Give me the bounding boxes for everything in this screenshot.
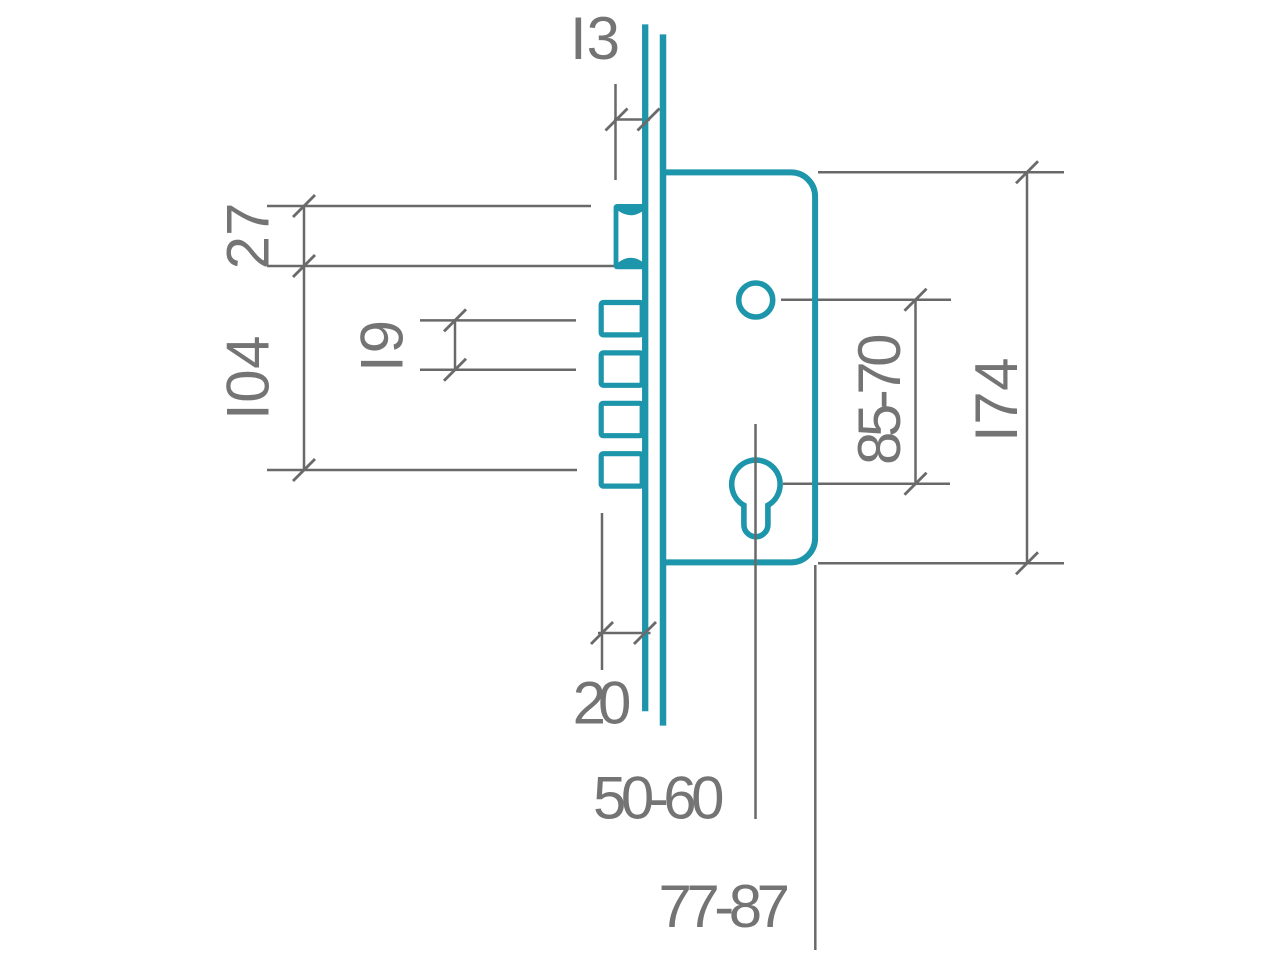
tick 20 right	[634, 622, 656, 644]
dim 19 dimension line	[454, 319, 457, 371]
svg-text:I9: I9	[349, 318, 416, 372]
lock case body outline	[663, 172, 815, 562]
svg-text:50-60: 50-60	[593, 765, 723, 832]
svg-text:85-70: 85-70	[846, 335, 913, 465]
deadbolt tooth 3	[601, 403, 642, 435]
tick 13 right	[638, 109, 660, 131]
tick 19 top	[444, 309, 466, 331]
dim 27-104 dimension line	[303, 205, 306, 470]
tick 85-70 bottom	[905, 473, 927, 495]
svg-text:I74: I74	[963, 357, 1030, 442]
dim 174 lower extension line	[818, 562, 1064, 565]
spindle hole	[739, 283, 773, 317]
dimension tick marks	[293, 109, 1038, 645]
tick 85-70 top	[905, 289, 927, 311]
svg-text:I3: I3	[570, 5, 620, 72]
keyhole leader / dim 85-70 lower extension	[783, 483, 950, 486]
dim 174 upper extension line	[818, 171, 1064, 174]
dim 13 dimension line	[614, 118, 650, 121]
deadbolt tooth 2	[601, 353, 642, 385]
tick 104 bottom	[293, 459, 315, 481]
dim 27 lower extension line	[267, 265, 614, 268]
dim 19 lower extension line	[420, 368, 576, 371]
tick 174 top	[1016, 161, 1038, 183]
tick 174 bottom	[1016, 552, 1038, 574]
teal lock drawing	[601, 24, 815, 725]
tick 27 bottom	[293, 255, 315, 277]
deadbolt tooth 1	[601, 303, 642, 335]
deadbolt tooth 4	[601, 454, 642, 486]
dim 27 upper extension line	[267, 205, 591, 208]
dim 20 dimension line	[598, 632, 651, 635]
euro cylinder keyhole	[732, 460, 780, 537]
centre line 50-60	[754, 424, 757, 819]
dim 174 dimension line	[1026, 172, 1029, 563]
dim 19 upper extension line	[420, 319, 576, 322]
tick 20 left	[591, 622, 613, 644]
faceplate back line	[660, 34, 667, 725]
latch bolt white core	[618, 211, 643, 263]
faceplate front line	[642, 24, 648, 711]
spindle hole leader / dim 85-70 upper extension	[781, 299, 951, 302]
svg-text:27: 27	[215, 203, 282, 270]
tick 19 bottom	[444, 359, 466, 381]
dim 104 lower extension line	[267, 469, 577, 472]
dim 85-70 dimension line	[914, 299, 917, 485]
dim 20 extension line	[601, 513, 604, 670]
svg-text:20: 20	[573, 670, 630, 737]
dim 13 extension line	[614, 84, 617, 180]
latch bolt (filled)	[614, 204, 648, 269]
tick 27 top	[293, 195, 315, 217]
svg-text:I04: I04	[215, 335, 282, 420]
svg-text:77-87: 77-87	[659, 873, 788, 940]
tick 13 left	[606, 109, 628, 131]
leader line 77-87	[814, 565, 817, 950]
